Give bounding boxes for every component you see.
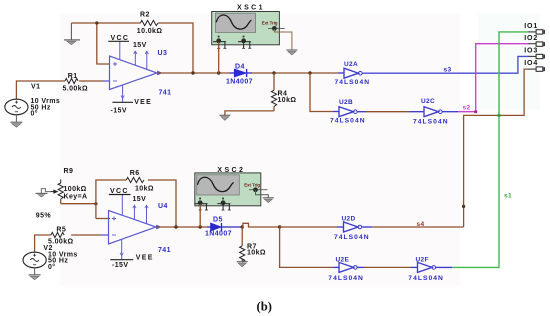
wire R9 wiper to ground xyxy=(41,189,51,193)
diode D5 xyxy=(207,223,228,231)
svg-text:U2E: U2E xyxy=(336,256,350,263)
node green crossing xyxy=(497,114,500,117)
wire XSC1 ext trig to ground xyxy=(274,29,292,50)
oscilloscope XSC2 xyxy=(195,167,261,206)
svg-text:U2C: U2C xyxy=(421,98,435,105)
svg-text:74LS04N: 74LS04N xyxy=(328,275,364,282)
R6 label xyxy=(130,170,140,177)
V2 value labels xyxy=(48,251,78,271)
U4 designator xyxy=(158,203,168,210)
wire to U2E xyxy=(280,227,339,267)
svg-text:74LS04N: 74LS04N xyxy=(334,234,370,241)
XSC1 probe A terminal xyxy=(213,36,226,49)
D4 label xyxy=(235,63,245,70)
15V label U4 xyxy=(133,196,147,203)
U2C label xyxy=(421,98,435,105)
XSC2 probe B terminal xyxy=(217,198,230,210)
inverter U2D xyxy=(344,222,362,232)
R4 value xyxy=(278,97,297,104)
svg-text:s4: s4 xyxy=(417,221,425,228)
svg-text:5.00kΩ: 5.00kΩ xyxy=(63,86,89,93)
svg-text:V1: V1 xyxy=(31,84,40,91)
D4 value xyxy=(226,79,253,86)
svg-text:74LS04N: 74LS04N xyxy=(408,275,444,282)
XSC1 probe B terminal xyxy=(238,36,251,49)
node output U3 xyxy=(191,71,194,74)
svg-text:(b): (b) xyxy=(257,300,272,314)
s4 net label xyxy=(417,221,425,228)
connector IO4 xyxy=(524,60,545,71)
caption (b) xyxy=(257,300,272,314)
connector IO2 xyxy=(524,35,545,46)
svg-text:IO3: IO3 xyxy=(524,48,538,55)
resistor R6 xyxy=(126,177,144,182)
s3 net label xyxy=(444,66,452,73)
ground R9 wiper xyxy=(36,193,48,197)
svg-text:-15V: -15V xyxy=(111,107,127,114)
U4 feedback wire xyxy=(96,180,176,227)
XSC1 ext trig terminal xyxy=(268,26,285,31)
svg-text:10kΩ: 10kΩ xyxy=(135,185,154,192)
svg-text:15V: 15V xyxy=(133,196,147,203)
svg-text:VEE: VEE xyxy=(134,99,152,106)
wire V2 to R5 to U4 inverting input xyxy=(35,235,109,252)
-15V label U3 xyxy=(111,107,127,114)
svg-text:VCC: VCC xyxy=(111,35,130,42)
svg-text:R2: R2 xyxy=(140,11,150,18)
XSC2 ext trig terminal xyxy=(249,187,268,192)
wire U2B to U2C xyxy=(357,111,424,113)
R2 value xyxy=(137,28,163,35)
svg-text:1N4007: 1N4007 xyxy=(205,231,232,238)
svg-text:U2F: U2F xyxy=(416,256,429,263)
connector IO3 xyxy=(524,48,545,59)
R9 value xyxy=(64,186,87,193)
D5 label xyxy=(213,217,223,224)
U2A label xyxy=(344,61,358,68)
wire U2E to U2F xyxy=(357,266,417,268)
U4 output wire xyxy=(156,226,207,228)
svg-text:s2: s2 xyxy=(463,104,471,111)
V1 label xyxy=(31,84,40,91)
U3 designator xyxy=(158,50,168,57)
R2 label xyxy=(140,11,150,18)
VCC T-bar U4 xyxy=(109,188,131,195)
svg-text:15V: 15V xyxy=(133,42,147,49)
svg-text:D4: D4 xyxy=(235,63,245,70)
wire XSC1 A to output net xyxy=(218,42,220,73)
R1 value xyxy=(63,86,89,93)
U2F part number xyxy=(408,275,444,282)
ground R7 xyxy=(237,262,248,267)
output wire U3 to gates xyxy=(157,72,230,74)
svg-text:100kΩ: 100kΩ xyxy=(64,186,87,193)
svg-text:1N4007: 1N4007 xyxy=(226,79,253,86)
wire s2 to IO2 xyxy=(442,44,529,114)
svg-text:-15V: -15V xyxy=(112,262,128,269)
U4 VEE pin stub xyxy=(120,239,123,260)
svg-text:R5: R5 xyxy=(56,226,66,233)
svg-text:R1: R1 xyxy=(68,73,78,80)
15V label U3 xyxy=(133,42,147,49)
svg-text:IO2: IO2 xyxy=(524,35,538,42)
svg-text:s3: s3 xyxy=(444,66,452,73)
node on s4 riser xyxy=(462,205,465,208)
wire U2F output to green xyxy=(436,266,452,268)
XSC2 probe A terminal xyxy=(195,198,208,210)
svg-text:U3: U3 xyxy=(158,50,168,57)
ground XSC1 trig xyxy=(286,50,297,55)
resistor R7 xyxy=(240,227,245,262)
R6 value xyxy=(135,185,154,192)
ground below V1 xyxy=(10,115,22,127)
R5 label xyxy=(56,226,66,233)
wire s4 from U2D xyxy=(362,226,464,228)
svg-text:Ext Trig: Ext Trig xyxy=(262,20,278,25)
wire XSC2 A to output net xyxy=(199,204,201,227)
node XSC2 A tap xyxy=(199,225,202,228)
U4 VCC pin stubs xyxy=(122,195,148,224)
inverter U2A xyxy=(338,68,362,78)
svg-text:10kΩ: 10kΩ xyxy=(278,97,297,104)
svg-text:10kΩ: 10kΩ xyxy=(247,250,266,257)
U2B label xyxy=(339,99,353,106)
diode D4 xyxy=(230,69,253,77)
svg-text:IO4: IO4 xyxy=(524,60,538,67)
junction top-left xyxy=(95,21,98,24)
R5 value xyxy=(48,239,74,246)
ground XSC2 trig xyxy=(263,198,274,203)
inverter U2B xyxy=(339,107,357,117)
ground below V2 xyxy=(29,268,41,280)
node U4 feedback xyxy=(174,225,177,228)
source V2 xyxy=(23,252,46,268)
oscilloscope XSC1 xyxy=(212,5,280,45)
VEE T-bar U3 xyxy=(112,99,152,106)
svg-text:Key=A: Key=A xyxy=(64,194,88,201)
svg-text:s1: s1 xyxy=(504,192,512,199)
node XSC1 A tap xyxy=(217,71,220,74)
svg-text:VCC: VCC xyxy=(110,188,129,195)
U2E label xyxy=(336,256,350,263)
svg-text:D5: D5 xyxy=(213,217,223,224)
inverter U2C xyxy=(424,107,442,117)
VEE T-bar U4 xyxy=(110,255,153,262)
svg-text:R9: R9 xyxy=(64,168,74,175)
U2B part number xyxy=(330,117,366,124)
op-amp U4 xyxy=(109,211,162,245)
svg-text:Ext Trig: Ext Trig xyxy=(244,183,260,188)
ground R4 xyxy=(219,115,230,120)
svg-text:0°: 0° xyxy=(48,263,56,271)
source V1 xyxy=(5,99,28,115)
op-amp U3 xyxy=(110,56,163,90)
connector IO1 xyxy=(524,23,545,34)
R9 label xyxy=(64,168,74,175)
node R7 xyxy=(241,225,244,228)
svg-text:U4: U4 xyxy=(158,203,168,210)
-15V label U4 xyxy=(112,262,128,269)
wire to U2B xyxy=(310,73,339,112)
resistor R4 xyxy=(271,73,276,111)
potentiometer R9 xyxy=(50,180,63,204)
wire D5 to R7 node xyxy=(228,226,243,228)
wire V1 to R1 to U3 inverting input xyxy=(16,81,110,100)
svg-text:VEE: VEE xyxy=(136,255,154,262)
s1 net label xyxy=(504,192,512,199)
svg-text:74LS04N: 74LS04N xyxy=(413,119,449,126)
svg-text:95%: 95% xyxy=(36,213,52,220)
741 label U3 xyxy=(159,90,172,97)
svg-text:741: 741 xyxy=(158,247,171,254)
wire s3 to IO3 xyxy=(362,56,529,73)
wire R9 bottom to U4 plus node xyxy=(61,203,96,205)
U3 VEE pin stub xyxy=(121,85,124,102)
wire s1 to IO1 xyxy=(452,32,530,268)
resistor R1 xyxy=(65,78,78,83)
wire R4 to ground xyxy=(225,111,274,115)
s2 net label xyxy=(463,104,471,111)
svg-text:74LS04N: 74LS04N xyxy=(335,79,371,86)
node U2E branch xyxy=(278,225,281,228)
svg-text:10.0kΩ: 10.0kΩ xyxy=(137,28,163,35)
inverter U2E xyxy=(339,262,357,272)
wire hop over R7 node xyxy=(243,223,280,227)
resistor R5 xyxy=(51,232,64,237)
svg-text:XSC1: XSC1 xyxy=(237,5,265,12)
741 label U4 xyxy=(158,247,171,254)
D5 value xyxy=(205,231,232,238)
VCC T-bar U3 xyxy=(108,35,129,42)
svg-text:U2A: U2A xyxy=(344,61,358,68)
R7 label xyxy=(247,243,257,250)
top feedback / ground wire xyxy=(71,23,193,73)
U2F label xyxy=(416,256,429,263)
U3 VCC pin stubs xyxy=(120,41,149,69)
svg-text:IO1: IO1 xyxy=(524,23,538,30)
wire XSC2 ext trig to ground xyxy=(256,190,269,198)
wire s4 top run to IO4 xyxy=(464,69,530,227)
node pot to feedback xyxy=(94,202,97,205)
svg-text:0°: 0° xyxy=(31,110,39,118)
R7 value xyxy=(247,250,266,257)
U2A part number xyxy=(335,79,371,86)
V1 value labels xyxy=(31,98,61,118)
R4 label xyxy=(278,91,288,98)
svg-text:741: 741 xyxy=(159,90,172,97)
R9 percent label xyxy=(36,213,52,220)
resistor R2 xyxy=(140,20,158,25)
U2C part number xyxy=(413,119,449,126)
U2D part number xyxy=(334,234,370,241)
svg-text:R6: R6 xyxy=(130,170,140,177)
inverter U2F xyxy=(418,262,436,272)
wire to U2D input xyxy=(280,226,344,228)
R9 key label xyxy=(64,194,88,201)
R1 label xyxy=(68,73,78,80)
wire D4 to R4/U2A xyxy=(252,72,338,74)
V2 label xyxy=(43,245,52,252)
svg-text:74LS04N: 74LS04N xyxy=(330,117,366,124)
node U2B branch xyxy=(308,71,311,74)
U2D label xyxy=(342,216,356,223)
svg-text:U2B: U2B xyxy=(339,99,353,106)
node R4 xyxy=(272,71,275,74)
svg-text:U2D: U2D xyxy=(342,216,356,223)
ground top-left xyxy=(64,23,80,45)
U2E part number xyxy=(328,275,364,282)
